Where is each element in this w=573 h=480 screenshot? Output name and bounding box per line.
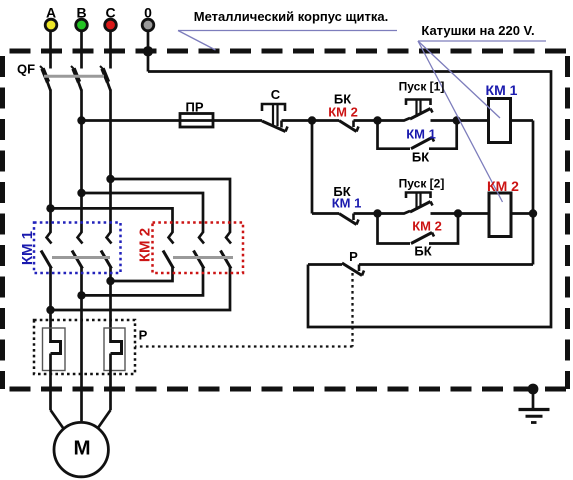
svg-text:Пуск [2]: Пуск [2] xyxy=(399,177,445,191)
svg-text:C: C xyxy=(271,87,281,102)
svg-text:КМ 2: КМ 2 xyxy=(328,105,358,120)
svg-text:Металлический корпус щитка.: Металлический корпус щитка. xyxy=(194,9,388,24)
svg-text:Катушки на 220 V.: Катушки на 220 V. xyxy=(421,23,534,38)
svg-text:КМ 1: КМ 1 xyxy=(19,231,36,265)
svg-text:КМ 2: КМ 2 xyxy=(137,228,154,262)
svg-text:БК: БК xyxy=(412,150,429,165)
svg-text:C: C xyxy=(105,5,115,21)
svg-text:КМ 1: КМ 1 xyxy=(332,196,362,211)
svg-text:КМ 2: КМ 2 xyxy=(487,178,519,194)
svg-text:0: 0 xyxy=(144,5,152,21)
svg-text:КМ 1: КМ 1 xyxy=(406,127,436,142)
svg-text:КМ 2: КМ 2 xyxy=(412,219,442,234)
svg-text:A: A xyxy=(46,5,56,21)
svg-text:B: B xyxy=(76,5,86,21)
svg-text:БК: БК xyxy=(414,244,431,259)
svg-text:P: P xyxy=(139,328,148,343)
svg-text:ПР: ПР xyxy=(185,100,203,115)
svg-text:Пуск [1]: Пуск [1] xyxy=(399,80,445,94)
svg-text:M: M xyxy=(73,437,90,460)
svg-text:QF: QF xyxy=(17,62,35,77)
svg-text:КМ 1: КМ 1 xyxy=(486,82,518,98)
svg-text:P: P xyxy=(349,249,358,264)
